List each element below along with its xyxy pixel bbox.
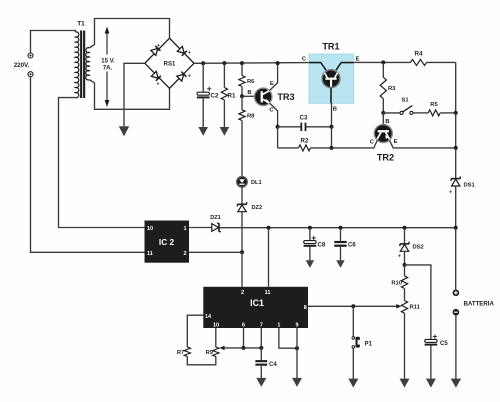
wire to R1 [223, 63, 225, 87]
node P1 branch [351, 304, 355, 308]
transistor TR3 [255, 88, 272, 105]
label IC1 [250, 298, 264, 308]
label DS1 [464, 183, 476, 189]
label B (TR1) [333, 107, 337, 113]
svg-text:+: + [188, 74, 191, 80]
label BATTERIA [464, 300, 495, 307]
wire IC1 pin8 to R11 wiper [308, 304, 401, 309]
capacitor C4 [255, 360, 267, 366]
label T1 [77, 21, 85, 28]
bridge diode top-right [177, 46, 191, 56]
trimmer P1 [352, 337, 360, 349]
TR1 internal leads [309, 63, 354, 71]
IC1 box [203, 287, 308, 328]
label R1 [228, 93, 236, 100]
svg-text:T1: T1 [77, 21, 85, 28]
node C2 [201, 61, 205, 65]
IC1 pin 7 [260, 323, 263, 329]
bridge diode bottom-left [151, 71, 161, 87]
IC1 pin 6 [242, 323, 245, 329]
wire R8 down to DL1 [241, 121, 243, 177]
node DS2 bottom [403, 263, 407, 267]
plus DS1 [449, 190, 452, 196]
label B (TR2) [385, 119, 389, 125]
IC1 pin 9 [295, 323, 298, 329]
svg-text:IC1: IC1 [250, 298, 264, 308]
LED DL1 [237, 176, 248, 187]
IC1 pin 2 [241, 290, 244, 296]
capacitor C3 [301, 123, 305, 131]
label R11 [410, 305, 421, 311]
node pin6 [242, 346, 246, 350]
svg-text:R8: R8 [247, 114, 255, 120]
svg-text:R7: R7 [177, 350, 184, 356]
wire pin10 to R9 [215, 328, 217, 347]
bridge diode bottom-right [177, 72, 191, 82]
node R6 [240, 61, 244, 65]
plus DS2 [398, 254, 401, 260]
wire to C2 [202, 63, 204, 92]
label R7 [177, 350, 184, 356]
node rail end [454, 226, 458, 230]
wire R3 to switch node [382, 99, 384, 113]
diode DS2 [400, 242, 409, 252]
transformer T1 secondary winding [86, 48, 90, 80]
wire rail to battery + [455, 228, 457, 290]
IC1 pin 14 [205, 314, 212, 320]
wire to R10 [404, 265, 406, 276]
wire TR3 C down to R2 row [277, 127, 279, 148]
wire DZ2 down to pin2 row [241, 212, 243, 253]
svg-text:C: C [302, 57, 307, 63]
svg-text:RS1: RS1 [164, 62, 176, 68]
svg-text:DS1: DS1 [464, 183, 476, 189]
TR1 transistor symbol [322, 70, 340, 88]
wire base column [331, 127, 333, 148]
terminal 220V top [28, 53, 33, 58]
svg-text:R6: R6 [247, 79, 255, 85]
resistor R9 [213, 347, 219, 357]
wire P1 to ground [352, 348, 354, 379]
node pin7 [259, 346, 263, 350]
wire pin6 to pin7 row [244, 347, 262, 349]
svg-text:TR3: TR3 [277, 92, 294, 102]
wire C4 to ground [260, 366, 262, 379]
label C8 [318, 243, 326, 249]
TR3 collector lead [269, 103, 277, 127]
node base-C3 [330, 125, 334, 129]
wire to R3 [382, 62, 384, 77]
wire DZ2 node to IC1 pin2 [241, 252, 243, 286]
ground (C8) [306, 260, 314, 268]
IC2 box [145, 221, 190, 263]
zener DZ1 [212, 223, 221, 231]
label P1 [365, 342, 373, 348]
ground (P1) [348, 379, 358, 388]
TR2 emitter lead [390, 140, 456, 148]
wire C5 to ground [430, 346, 432, 379]
svg-text:2: 2 [241, 290, 244, 296]
svg-text:B: B [247, 90, 251, 96]
svg-text:+: + [157, 82, 160, 88]
battery minus terminal [453, 309, 460, 316]
wire bridge left vertex to ground [124, 63, 145, 126]
svg-text:9: 9 [295, 323, 298, 329]
node base-R2 [330, 146, 334, 150]
IC2 pin2 wire [189, 251, 242, 253]
label C4 [269, 362, 277, 368]
resistor R8 [239, 110, 245, 121]
resistor R11 (trimmer) [401, 301, 407, 314]
svg-text:+: + [157, 43, 160, 49]
wire TR1 base column [331, 103, 333, 127]
svg-text:TR2: TR2 [377, 153, 394, 163]
resistor R4 [411, 59, 427, 65]
ground (R1) [220, 127, 230, 136]
node DS2 [403, 226, 407, 230]
wire R1 to ground [223, 100, 225, 127]
wire to P1 [352, 306, 354, 336]
wire pin14 to R7 [187, 315, 203, 347]
node C3 left [276, 125, 280, 129]
wire C8 to ground [309, 247, 311, 261]
IC1 pin 1 [277, 323, 280, 329]
node R1 [222, 61, 226, 65]
TR1 base lead [330, 88, 332, 104]
wire TR1 E rail [354, 61, 411, 63]
label C (TR1) [302, 57, 307, 63]
svg-text:C3: C3 [300, 115, 308, 122]
wire C2 to ground [202, 98, 204, 127]
node rail-S1 [454, 111, 458, 115]
svg-text:DZ2: DZ2 [252, 205, 263, 211]
label C2 [211, 93, 219, 100]
wire DL1 to DZ2 [241, 187, 243, 203]
IC1 pin 11 [265, 290, 271, 296]
wire C3 to base column [306, 126, 332, 128]
svg-text:C5: C5 [440, 341, 448, 347]
wire to C8 [309, 228, 311, 241]
ground (battery) [451, 379, 461, 388]
node rail-TR2E [454, 146, 458, 150]
svg-text:1: 1 [277, 323, 280, 329]
node TR3 base [240, 94, 244, 98]
svg-text:220V.: 220V. [14, 62, 30, 69]
svg-text:R3: R3 [388, 86, 396, 92]
node pin11 branch [267, 226, 271, 230]
svg-text:P1: P1 [365, 342, 373, 348]
svg-text:7A.: 7A. [103, 66, 113, 72]
wire DS2 to node [404, 251, 406, 265]
svg-text:E: E [394, 139, 398, 145]
svg-text:E: E [356, 57, 360, 63]
label R3 [388, 86, 396, 92]
svg-text:1: 1 [183, 226, 186, 232]
label E (TR1) [356, 57, 360, 63]
label TR1 [322, 42, 339, 52]
svg-text:+: + [188, 50, 191, 56]
IC1 pin 8 [304, 305, 307, 311]
svg-text:BATTERIA: BATTERIA [464, 300, 495, 307]
IC1 pin 10 [213, 323, 219, 329]
wire R2 to base column node [311, 147, 332, 149]
svg-text:10: 10 [147, 226, 153, 232]
wire R4 to corner [427, 61, 456, 63]
svg-text:2: 2 [183, 251, 186, 257]
IC2 pin 2 [183, 251, 186, 257]
label DZ1 [210, 215, 221, 221]
label C (TR3) [269, 108, 274, 114]
wire to C5 column [405, 265, 431, 339]
label IC2 [159, 237, 175, 247]
wire battery - to ground [455, 316, 457, 380]
svg-text:R11: R11 [410, 305, 421, 311]
label R10 [391, 281, 402, 287]
IC2 pin 10 [147, 226, 153, 232]
resistor R10 [401, 276, 407, 289]
wire to R6 [241, 63, 243, 75]
label S1 [401, 98, 409, 104]
wire main rail [194, 62, 309, 65]
transformer T1 core [80, 31, 85, 99]
wire secondary bottom [89, 80, 169, 110]
svg-text:8: 8 [304, 305, 307, 311]
capacitor C6 [334, 241, 346, 247]
label R6 [247, 79, 255, 85]
wire C6 to ground [340, 247, 342, 261]
bridge RS1 outline [145, 38, 194, 88]
capacitor C2 [197, 87, 211, 99]
wire primary-top to terminal [31, 31, 76, 53]
label R8 [247, 114, 255, 120]
wire right rail mid [455, 113, 457, 148]
label TR3 [277, 92, 294, 102]
wire to IC1 pin11 [268, 228, 270, 287]
svg-text:IC 2: IC 2 [159, 237, 175, 247]
wire to R2 [278, 147, 299, 149]
label C3 [300, 115, 308, 122]
svg-text:7: 7 [260, 323, 263, 329]
wire to DS2 [404, 228, 406, 244]
label DZ2 [252, 205, 263, 211]
wire secondary top [89, 19, 169, 48]
svg-text:DS2: DS2 [413, 245, 424, 251]
wire primary-bottom to IC2 pin 10 [59, 98, 145, 228]
label C (TR2) [370, 140, 375, 146]
resistor R2 [299, 145, 311, 151]
svg-text:+: + [398, 254, 401, 260]
node R3 top [381, 60, 385, 64]
label E (TR2) [394, 139, 398, 145]
wire rail 227 [219, 227, 456, 229]
svg-text:DL1: DL1 [251, 180, 262, 186]
label R2 [301, 137, 309, 144]
wire S1 to R5 [413, 112, 428, 114]
IC2 pin1 wire [189, 227, 212, 229]
label C5 [440, 341, 448, 347]
label R9 [206, 350, 214, 356]
node DZ2-pin2 [240, 250, 244, 254]
wire to C6 [340, 228, 342, 241]
ground (R11) [400, 379, 410, 388]
wire to R8 [241, 96, 243, 110]
ground (C5) [426, 379, 436, 388]
ground (C2) [198, 127, 208, 136]
bridge diode top-left [151, 43, 161, 56]
wire pin1 down [279, 328, 297, 348]
label RS1 [164, 62, 176, 68]
svg-text:DZ1: DZ1 [210, 215, 221, 221]
wire base node to TR3 [242, 95, 255, 97]
capacitor C8 [304, 236, 317, 247]
wire to S1 [383, 112, 400, 114]
switch S1 [400, 106, 413, 115]
svg-text:11: 11 [265, 290, 271, 296]
terminal 220V bottom [28, 72, 33, 77]
IC2 pin 1 [183, 226, 186, 232]
svg-text:C: C [370, 140, 375, 146]
wire R6 to base node [241, 87, 243, 97]
svg-text:C8: C8 [318, 243, 326, 249]
wire to C3 [278, 126, 301, 128]
svg-text:B: B [333, 107, 337, 113]
label R4 [415, 51, 423, 58]
wire R10-R11 [404, 289, 406, 301]
svg-text:R5: R5 [430, 102, 438, 108]
ground (C4) [256, 378, 266, 387]
label 220V. [14, 62, 30, 69]
node TR3 emitter rail [276, 61, 280, 65]
label DL1 [251, 180, 262, 186]
label E (TR3) [270, 81, 274, 87]
ground (bridge) [119, 126, 129, 136]
svg-text:C: C [269, 108, 274, 114]
svg-text:+: + [449, 190, 452, 196]
ground (pin9) [292, 378, 302, 387]
node pin9 [295, 346, 299, 350]
label DS2 [413, 245, 424, 251]
diode DS1 [451, 176, 460, 186]
R9 wiper arrow [220, 346, 244, 351]
svg-text:R1: R1 [228, 93, 236, 100]
svg-text:C2: C2 [211, 93, 219, 100]
label TR2 [377, 153, 394, 163]
wire pin6 down [243, 328, 245, 348]
label B (TR3) [247, 90, 251, 96]
resistor R7 [184, 347, 190, 357]
svg-text:6: 6 [242, 323, 245, 329]
svg-text:10: 10 [213, 323, 219, 329]
wire R7 loop to R9 [187, 357, 216, 365]
IC2 pin 11 [147, 251, 153, 257]
node C6 [339, 226, 343, 230]
measure arrow 15V 7A [105, 27, 110, 108]
svg-text:S1: S1 [401, 98, 409, 104]
transformer T1 primary winding [75, 32, 78, 98]
resistor R3 [380, 77, 386, 98]
wire right rail upper [455, 62, 457, 113]
wire rail to DS1 [455, 148, 457, 178]
svg-text:B: B [385, 119, 389, 125]
transistor TR2 [374, 125, 392, 143]
svg-text:R4: R4 [415, 51, 423, 58]
node C8 [308, 226, 312, 230]
capacitor C5 [425, 335, 438, 346]
svg-text:15 V.: 15 V. [101, 58, 115, 64]
label 15V 7A [101, 58, 115, 71]
zener DZ2 [237, 202, 246, 212]
wire R3 node to TR2 base [382, 113, 384, 125]
TR2 collector lead [332, 140, 378, 148]
wire pin7 down [260, 328, 262, 360]
svg-text:R9: R9 [206, 350, 214, 356]
TR3 emitter lead [269, 63, 277, 91]
battery plus terminal [453, 290, 460, 297]
wire pin9 down [296, 328, 298, 378]
svg-text:C4: C4 [269, 362, 277, 368]
label C6 [348, 243, 356, 249]
svg-text:R2: R2 [301, 137, 309, 144]
node S1 branch [381, 111, 385, 115]
label R5 [430, 102, 438, 108]
svg-text:11: 11 [147, 251, 153, 257]
wire DS1 to node [455, 186, 457, 228]
svg-text:C6: C6 [348, 243, 356, 249]
resistor R1 [221, 88, 227, 101]
svg-text:14: 14 [205, 314, 212, 320]
wire terminal to IC2 pin 11 [31, 77, 145, 252]
wire R5 to rail [440, 112, 456, 114]
resistor R5 [428, 110, 440, 116]
ground (C6) [336, 260, 344, 268]
resistor R6 [239, 76, 245, 87]
wire R11 to ground [404, 313, 406, 379]
svg-text:R10: R10 [391, 281, 402, 287]
TR1 package box [309, 54, 354, 103]
svg-text:TR1: TR1 [322, 42, 339, 52]
